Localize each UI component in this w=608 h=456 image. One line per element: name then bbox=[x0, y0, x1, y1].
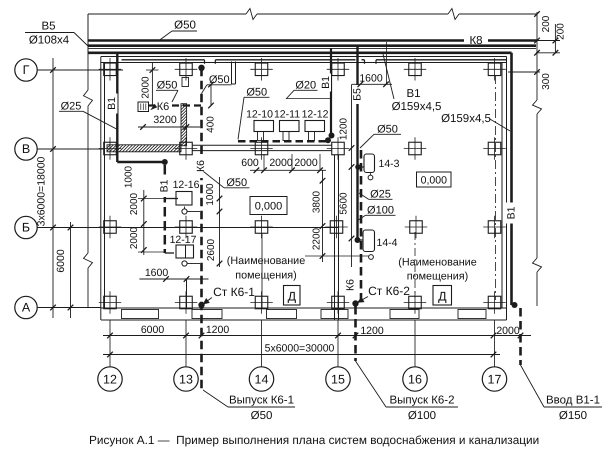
svg-text:Ø50: Ø50 bbox=[246, 87, 267, 99]
svg-text:200: 200 bbox=[541, 15, 552, 32]
svg-text:2000: 2000 bbox=[269, 157, 293, 169]
svg-text:1600: 1600 bbox=[359, 73, 383, 85]
svg-text:6000: 6000 bbox=[55, 249, 67, 273]
svg-text:Ø159х4,5: Ø159х4,5 bbox=[392, 101, 442, 113]
svg-text:Ø159х4,5: Ø159х4,5 bbox=[441, 113, 491, 125]
svg-text:К6: К6 bbox=[345, 279, 357, 291]
svg-text:Ø50: Ø50 bbox=[157, 80, 178, 92]
svg-text:Ø50: Ø50 bbox=[174, 20, 196, 32]
svg-text:В1: В1 bbox=[506, 206, 518, 219]
svg-text:Д: Д bbox=[438, 290, 447, 304]
svg-text:12-17: 12-17 bbox=[170, 234, 197, 246]
svg-text:200: 200 bbox=[556, 23, 567, 40]
svg-text:Б: Б bbox=[22, 221, 30, 235]
svg-text:Ø108х4: Ø108х4 bbox=[29, 35, 70, 47]
svg-text:2000: 2000 bbox=[129, 226, 140, 249]
svg-text:12-11: 12-11 bbox=[274, 109, 300, 121]
svg-text:2200: 2200 bbox=[312, 227, 323, 250]
svg-text:16: 16 bbox=[408, 372, 422, 386]
svg-text:Ст К6-2: Ст К6-2 bbox=[368, 284, 410, 298]
svg-text:Ø25: Ø25 bbox=[61, 101, 82, 113]
svg-text:В5: В5 bbox=[41, 21, 55, 33]
svg-text:В1: В1 bbox=[158, 179, 170, 192]
svg-text:13: 13 bbox=[179, 372, 193, 386]
svg-text:В1: В1 bbox=[106, 97, 118, 110]
svg-text:Ø50: Ø50 bbox=[251, 410, 273, 422]
svg-text:3200: 3200 bbox=[153, 114, 177, 126]
svg-text:В1: В1 bbox=[406, 88, 420, 100]
svg-text:3800: 3800 bbox=[312, 190, 323, 213]
svg-text:В1: В1 bbox=[320, 76, 332, 89]
svg-text:5600: 5600 bbox=[338, 192, 349, 215]
svg-text:12-16: 12-16 bbox=[173, 179, 200, 191]
svg-text:14: 14 bbox=[255, 372, 269, 386]
svg-text:Ввод В1-1: Ввод В1-1 bbox=[546, 395, 600, 407]
svg-text:600: 600 bbox=[241, 157, 259, 169]
svg-text:Б5: Б5 bbox=[352, 88, 364, 101]
svg-text:3х6000=18000: 3х6000=18000 bbox=[36, 156, 48, 226]
svg-text:(Наименование: (Наименование bbox=[398, 257, 476, 269]
svg-text:2600: 2600 bbox=[206, 238, 217, 261]
svg-text:Г: Г bbox=[23, 63, 30, 77]
svg-text:Ø50: Ø50 bbox=[377, 124, 398, 136]
svg-text:5х6000=30000: 5х6000=30000 bbox=[265, 343, 335, 355]
svg-text:2000: 2000 bbox=[141, 76, 152, 99]
svg-text:1000: 1000 bbox=[124, 165, 135, 188]
svg-text:12: 12 bbox=[103, 372, 117, 386]
svg-text:Ø100: Ø100 bbox=[408, 410, 436, 422]
svg-text:400: 400 bbox=[206, 116, 217, 133]
svg-text:А: А bbox=[22, 301, 31, 315]
svg-text:300: 300 bbox=[541, 73, 552, 90]
svg-text:Рисунок А.1 — Пример выполнен: Рисунок А.1 — Пример выполнения плана си… bbox=[89, 433, 539, 447]
svg-text:1200: 1200 bbox=[360, 325, 384, 337]
svg-text:15: 15 bbox=[331, 372, 345, 386]
svg-text:Ø25: Ø25 bbox=[370, 189, 391, 201]
svg-text:12-12: 12-12 bbox=[302, 109, 329, 121]
svg-text:Ст К6-1: Ст К6-1 bbox=[213, 285, 255, 299]
svg-text:6000: 6000 bbox=[141, 324, 165, 336]
svg-text:помещения): помещения) bbox=[235, 270, 296, 282]
svg-text:12-10: 12-10 bbox=[246, 109, 273, 121]
svg-text:Ø100: Ø100 bbox=[367, 205, 394, 217]
svg-text:Ø20: Ø20 bbox=[295, 80, 316, 92]
svg-text:К6: К6 bbox=[195, 160, 207, 172]
svg-text:2000: 2000 bbox=[294, 157, 318, 169]
svg-text:Д: Д bbox=[288, 290, 297, 304]
svg-text:1600: 1600 bbox=[145, 267, 169, 279]
svg-text:Выпуск К6-1: Выпуск К6-1 bbox=[229, 395, 294, 407]
svg-text:17: 17 bbox=[488, 372, 502, 386]
svg-text:1200: 1200 bbox=[206, 324, 230, 336]
svg-text:14-4: 14-4 bbox=[376, 237, 397, 249]
svg-text:помещения): помещения) bbox=[407, 271, 468, 283]
svg-text:В: В bbox=[22, 142, 30, 156]
svg-text:14-3: 14-3 bbox=[378, 158, 399, 170]
svg-text:К8: К8 bbox=[469, 35, 482, 47]
svg-text:1000: 1000 bbox=[205, 183, 216, 206]
svg-text:0,000: 0,000 bbox=[421, 175, 447, 187]
svg-text:2000: 2000 bbox=[496, 325, 520, 337]
svg-text:Ø50: Ø50 bbox=[209, 74, 230, 86]
svg-text:(Наименование: (Наименование bbox=[227, 255, 305, 267]
svg-text:Ø150: Ø150 bbox=[559, 410, 587, 422]
svg-text:2000: 2000 bbox=[129, 192, 140, 215]
svg-text:1200: 1200 bbox=[339, 117, 350, 140]
svg-text:Выпуск К6-2: Выпуск К6-2 bbox=[389, 395, 454, 407]
svg-text:Ø50: Ø50 bbox=[226, 177, 247, 189]
svg-text:К6: К6 bbox=[157, 101, 170, 113]
svg-text:0,000: 0,000 bbox=[255, 201, 283, 213]
